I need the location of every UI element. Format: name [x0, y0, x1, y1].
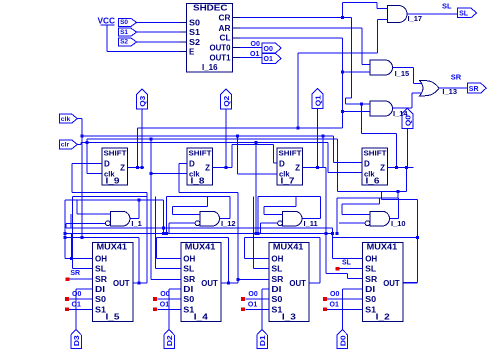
- svg-text:SL: SL: [442, 2, 452, 11]
- wire: [338, 190, 407, 192]
- wire: [317, 109, 319, 168]
- unconnected pin S0 I_3: [241, 297, 245, 301]
- wire: [157, 308, 181, 310]
- unconnected pin SR I_5: [65, 277, 69, 281]
- output tag O0: [262, 43, 281, 53]
- svg-text:SL: SL: [95, 265, 106, 274]
- flipflop SHIFT I_7: [277, 148, 303, 185]
- svg-text:Q0: Q0: [403, 115, 412, 126]
- svg-text:SHIFT: SHIFT: [189, 149, 212, 158]
- wire D I_8: [179, 162, 187, 164]
- svg-text:S0: S0: [183, 295, 195, 304]
- wire: [237, 173, 277, 175]
- svg-text:S0: S0: [365, 295, 377, 304]
- wire SL I_3: [253, 268, 269, 270]
- wire bubble I_12: [169, 222, 195, 224]
- junction: [137, 281, 140, 284]
- flipflop SHIFT I_6: [362, 148, 388, 185]
- wire Z I_9: [128, 167, 145, 169]
- svg-text:I_3: I_3: [282, 313, 297, 322]
- junction: [63, 232, 66, 235]
- svg-text:SL: SL: [183, 265, 194, 274]
- wire clr bus: [81, 142, 328, 144]
- output tag SR: [467, 83, 486, 93]
- wire OUT I_2 loop: [403, 282, 418, 284]
- svg-text:O1: O1: [72, 302, 81, 309]
- and gate I_1: [110, 211, 129, 226]
- svg-text:D0: D0: [338, 335, 347, 346]
- wire: [342, 71, 370, 73]
- junction: [341, 70, 344, 73]
- svg-text:SHIFT: SHIFT: [364, 149, 387, 158]
- wire feedback I_4: [157, 236, 229, 238]
- wire SR I_3: [238, 278, 269, 280]
- svg-text:OH: OH: [271, 254, 283, 263]
- wire bubble I_1: [66, 222, 105, 224]
- svg-text:VCC: VCC: [98, 17, 116, 26]
- junction: [341, 110, 344, 113]
- multiplexer MUX41 I_2: [363, 243, 403, 322]
- svg-text:Z: Z: [380, 164, 385, 173]
- svg-text:I_11: I_11: [304, 219, 318, 228]
- svg-text:D2: D2: [165, 335, 174, 346]
- wire: [69, 308, 93, 310]
- and gate I_14: [370, 101, 393, 116]
- svg-text:OUT: OUT: [289, 279, 306, 288]
- output tag Q3: [137, 89, 148, 109]
- wire bubble I_11: [261, 222, 278, 224]
- decoder SHDEC I_16: [187, 4, 233, 73]
- wire AR: [240, 27, 362, 29]
- junction: [81, 135, 84, 138]
- input tag clr: [59, 140, 77, 149]
- svg-text:S1: S1: [189, 28, 201, 37]
- svg-text:I_12: I_12: [221, 219, 236, 228]
- svg-text:I_8: I_8: [191, 177, 206, 186]
- svg-text:SR: SR: [271, 275, 283, 284]
- svg-text:S0: S0: [271, 295, 283, 304]
- junction: [341, 16, 344, 19]
- wire: [138, 200, 140, 218]
- wire: [339, 268, 362, 270]
- svg-text:OUT: OUT: [201, 279, 218, 288]
- wire: [240, 56, 262, 58]
- junction: [150, 138, 153, 141]
- multiplexer MUX41 I_3: [269, 243, 309, 322]
- input tag D0: [337, 330, 348, 349]
- junction: [225, 166, 228, 169]
- wire: [69, 298, 93, 300]
- svg-text:S0: S0: [95, 295, 107, 304]
- wire: [137, 41, 180, 43]
- svg-text:MUX41: MUX41: [97, 242, 128, 251]
- svg-text:SL: SL: [365, 265, 376, 274]
- svg-text:OH: OH: [95, 254, 107, 263]
- wire feedback I_5: [65, 236, 139, 238]
- input tag clk: [59, 114, 77, 123]
- unconnected pin SL I_2: [335, 267, 339, 271]
- wire clk: [77, 118, 82, 120]
- multiplexer MUX41 I_5: [93, 243, 133, 322]
- svg-text:OUT0: OUT0: [210, 44, 232, 53]
- wire I_10 loop: [337, 197, 399, 199]
- wire I_17 out: [407, 13, 458, 15]
- svg-text:S0: S0: [189, 18, 201, 27]
- wire: [240, 47, 262, 49]
- junction: [335, 232, 338, 235]
- wire I_14 out: [393, 107, 413, 109]
- output tag Q2: [221, 89, 232, 109]
- unconnected pin S0 I_2: [323, 297, 327, 301]
- wire bubble I_10: [339, 222, 365, 224]
- svg-text:MUX41: MUX41: [273, 242, 304, 251]
- wire I_12 loop: [166, 195, 230, 197]
- junction: [257, 232, 260, 235]
- wire I_10 in: [342, 213, 370, 215]
- junction: [331, 232, 334, 235]
- input tag S0: [119, 19, 137, 27]
- wire I_17 in2: [377, 19, 387, 21]
- svg-text:SL: SL: [342, 260, 352, 267]
- svg-text:O0: O0: [251, 41, 260, 48]
- svg-text:clr: clr: [61, 142, 70, 149]
- and gate I_15: [370, 60, 393, 75]
- svg-text:D: D: [279, 159, 285, 168]
- wire: [342, 111, 370, 113]
- and gate I_11: [283, 211, 303, 226]
- svg-text:SHIFT: SHIFT: [279, 149, 302, 158]
- and gate I_12: [200, 211, 220, 226]
- svg-text:OUT: OUT: [383, 279, 400, 288]
- wire SR I_4: [151, 278, 181, 280]
- svg-text:OH: OH: [365, 254, 377, 263]
- wire: [150, 139, 152, 279]
- svg-text:I_5: I_5: [106, 313, 121, 322]
- junction: [165, 232, 168, 235]
- junction: [136, 166, 139, 169]
- junction: [296, 127, 299, 130]
- wire: [245, 298, 269, 300]
- wire H0: [66, 227, 333, 229]
- svg-text:O1: O1: [264, 56, 273, 63]
- wire DI I_5: [76, 288, 93, 290]
- wire AR chain: [360, 104, 362, 133]
- wire feedback I_2: [333, 236, 418, 238]
- svg-text:MUX41: MUX41: [367, 242, 398, 251]
- input tag D1: [257, 330, 268, 349]
- junction: [150, 172, 153, 175]
- and gate I_10: [370, 211, 390, 226]
- wire: [341, 3, 343, 18]
- wire: [141, 109, 143, 168]
- unconnected pin S1 I_4: [153, 308, 157, 312]
- wire: [236, 136, 238, 174]
- wire chain A: [138, 127, 343, 129]
- svg-text:DI: DI: [271, 285, 281, 294]
- svg-text:I_16: I_16: [202, 63, 218, 72]
- unconnected pin S1 I_3: [241, 308, 245, 312]
- svg-text:SR: SR: [183, 275, 195, 284]
- svg-text:SR: SR: [365, 275, 377, 284]
- flipflop SHIFT I_9: [102, 148, 128, 185]
- wire DI I_2: [342, 288, 362, 290]
- svg-text:I_13: I_13: [442, 87, 457, 96]
- multiplexer MUX41 I_4: [181, 243, 221, 322]
- output tag Q0: [402, 108, 413, 128]
- wire OUT I_3: [309, 282, 320, 284]
- svg-text:D: D: [189, 159, 195, 168]
- wire: [137, 21, 180, 23]
- svg-text:I_4: I_4: [194, 313, 209, 322]
- svg-text:CR: CR: [219, 13, 231, 22]
- unconnected pin S0 I_5: [65, 297, 69, 301]
- svg-text:D: D: [104, 159, 110, 168]
- wire: [64, 200, 66, 237]
- svg-text:SL: SL: [459, 10, 469, 17]
- wire I_11 loop: [258, 195, 320, 197]
- wire I_13 out: [439, 87, 467, 89]
- flipflop SHIFT I_8: [187, 148, 213, 185]
- junction: [360, 102, 363, 105]
- input tag S2: [119, 38, 137, 46]
- junction: [162, 226, 165, 229]
- svg-text:SL: SL: [271, 265, 282, 274]
- junction: [85, 141, 88, 144]
- svg-text:I_6: I_6: [366, 177, 381, 186]
- wire H1: [65, 232, 333, 234]
- wire chain2: [231, 145, 233, 168]
- svg-text:DI: DI: [183, 285, 193, 294]
- svg-text:O1: O1: [330, 302, 339, 309]
- svg-text:S0: S0: [120, 19, 128, 26]
- svg-text:O0: O0: [160, 291, 169, 298]
- output tag SL: [458, 8, 477, 17]
- svg-text:I_1: I_1: [131, 219, 141, 228]
- svg-text:SR: SR: [451, 73, 462, 82]
- wire I_1: [77, 213, 110, 215]
- svg-text:S1: S1: [120, 29, 128, 36]
- junction: [236, 278, 239, 281]
- wire Z I_6: [388, 167, 414, 169]
- wire Z I_7: [303, 167, 326, 169]
- input tag S1: [119, 28, 137, 36]
- svg-text:I_2: I_2: [376, 313, 391, 322]
- wire: [255, 143, 257, 234]
- wire: [225, 109, 227, 168]
- input tag D2: [164, 330, 175, 349]
- wire: [0, 0, 1, 1]
- wire: [327, 298, 363, 300]
- svg-text:O1: O1: [248, 302, 257, 309]
- wire clr: [77, 143, 81, 145]
- wire DI I_4: [169, 288, 181, 290]
- svg-text:D1: D1: [258, 335, 267, 346]
- or gate I_13: [420, 80, 440, 96]
- svg-text:S2: S2: [189, 38, 201, 47]
- svg-text:E: E: [189, 47, 195, 56]
- unconnected pin S0 I_4: [153, 297, 157, 301]
- wire: [151, 172, 187, 174]
- wire chain3: [322, 136, 324, 167]
- svg-text:Z: Z: [120, 164, 125, 173]
- svg-text:S2: S2: [120, 39, 128, 46]
- junction: [137, 199, 140, 202]
- svg-text:Q2: Q2: [222, 96, 231, 107]
- junction: [316, 166, 319, 169]
- svg-text:O0: O0: [330, 291, 339, 298]
- svg-text:I_7: I_7: [281, 177, 295, 186]
- svg-text:OUT1: OUT1: [210, 53, 232, 62]
- unconnected pin S1 I_5: [65, 308, 69, 312]
- and gate I_17: [387, 6, 407, 23]
- svg-text:D3: D3: [72, 335, 81, 346]
- svg-text:clk: clk: [61, 116, 71, 123]
- junction: [321, 135, 324, 138]
- svg-text:SHDEC: SHDEC: [193, 4, 228, 13]
- junction: [397, 190, 400, 193]
- svg-text:DI: DI: [365, 285, 375, 294]
- svg-text:MUX41: MUX41: [185, 242, 216, 251]
- svg-text:O0: O0: [248, 291, 257, 298]
- svg-text:Z: Z: [295, 164, 300, 173]
- junction: [70, 257, 73, 260]
- svg-text:OUT: OUT: [113, 279, 130, 288]
- svg-text:Z: Z: [205, 164, 210, 173]
- svg-text:CL: CL: [220, 34, 231, 43]
- wire Z I_8: [213, 167, 232, 169]
- svg-text:I_15: I_15: [395, 69, 410, 78]
- wire: [69, 278, 92, 280]
- wire: [245, 308, 269, 310]
- junction: [255, 232, 258, 235]
- wire feedback I_3: [245, 236, 320, 238]
- wire SL I_5: [72, 268, 92, 270]
- svg-text:DI: DI: [95, 285, 105, 294]
- junction: [395, 166, 398, 169]
- svg-text:I_17: I_17: [408, 14, 423, 23]
- wire I_11 in: [264, 213, 283, 215]
- wire OUT I_4: [221, 282, 228, 284]
- output tag Q1: [312, 89, 323, 109]
- wire: [157, 298, 181, 300]
- svg-text:D: D: [364, 159, 370, 168]
- wire SL I_4: [156, 268, 181, 270]
- pin stubs SHDEC: [180, 21, 187, 23]
- junction: [236, 135, 239, 138]
- wire: [327, 308, 363, 310]
- wire VCC to E: [106, 25, 108, 51]
- wire: [137, 31, 180, 33]
- output tag O1: [262, 53, 281, 63]
- wire CR down: [350, 17, 352, 97]
- wire: [162, 200, 164, 233]
- wire bus a: [82, 135, 333, 137]
- wire I_12 in: [172, 213, 200, 215]
- svg-text:I_9: I_9: [106, 177, 121, 186]
- wire: [332, 233, 334, 237]
- wire: [86, 139, 88, 173]
- svg-text:SR: SR: [469, 86, 479, 93]
- svg-text:O0: O0: [72, 291, 81, 298]
- input tag D3: [71, 330, 82, 349]
- svg-text:Q3: Q3: [138, 96, 147, 107]
- svg-text:AR: AR: [219, 24, 231, 33]
- unconnected pin S1 I_2: [323, 308, 327, 312]
- wire OUT I_2: [403, 282, 418, 284]
- svg-text:O1: O1: [160, 302, 169, 309]
- svg-text:Q1: Q1: [313, 95, 322, 106]
- junction: [255, 141, 258, 144]
- junction: [324, 232, 327, 235]
- svg-text:I_10: I_10: [391, 219, 406, 228]
- svg-text:SHIFT: SHIFT: [104, 149, 127, 158]
- wire OUT I_5: [133, 282, 139, 284]
- svg-text:SR: SR: [70, 270, 80, 277]
- junction: [81, 236, 84, 239]
- wire D I_9: [72, 162, 102, 164]
- wire I_15 out: [393, 67, 414, 69]
- svg-text:SR: SR: [95, 275, 107, 284]
- svg-text:OH: OH: [183, 254, 195, 263]
- wire: [229, 282, 238, 284]
- wire CL: [240, 37, 342, 39]
- wire DI I_3: [262, 288, 269, 290]
- wire bus b: [87, 138, 338, 140]
- wire chain SR: [325, 168, 327, 274]
- svg-text:O0: O0: [264, 46, 273, 53]
- wire: [406, 168, 408, 192]
- wire: [70, 233, 72, 258]
- wire: [406, 128, 408, 167]
- junction: [416, 236, 419, 239]
- wire CR: [240, 16, 351, 18]
